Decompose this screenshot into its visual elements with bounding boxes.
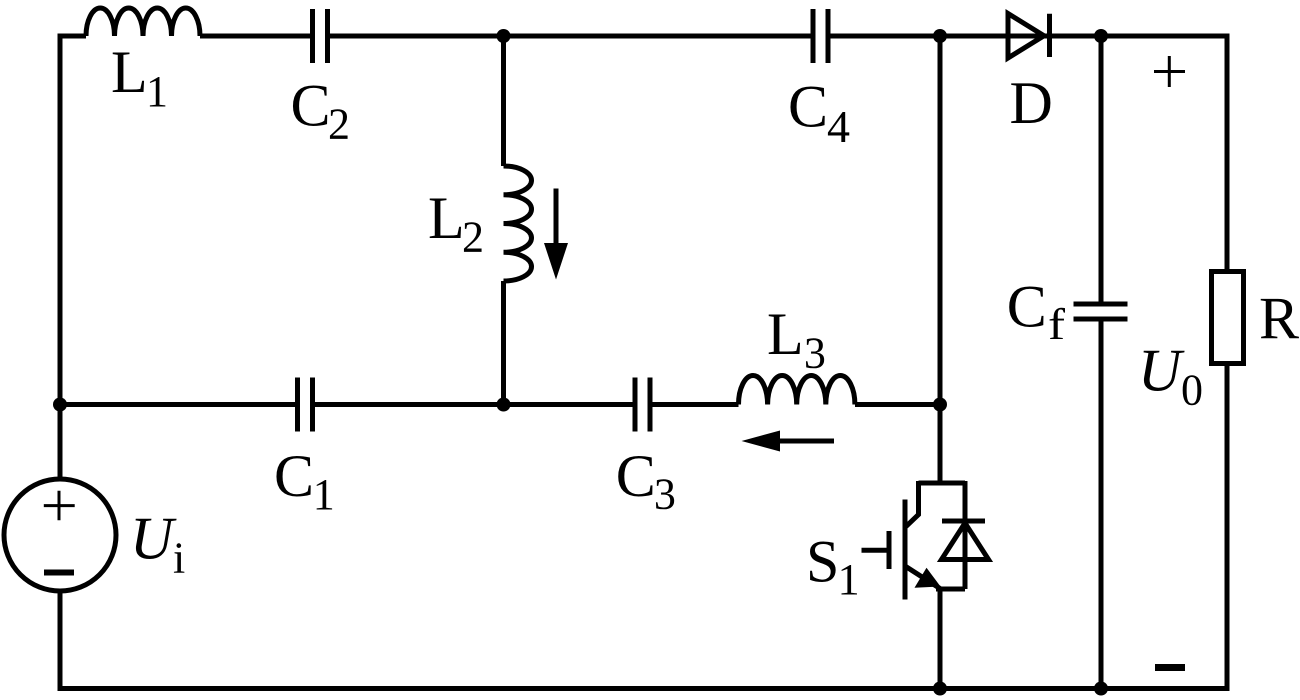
svg-text:1: 1 (146, 67, 168, 116)
svg-text:1: 1 (838, 555, 860, 604)
svg-text:U: U (130, 506, 177, 572)
svg-text:i: i (173, 533, 185, 582)
svg-text:L: L (767, 301, 804, 367)
svg-text:0: 0 (1181, 365, 1203, 414)
svg-text:R: R (1259, 286, 1299, 352)
svg-text:1: 1 (313, 470, 335, 519)
svg-text:L: L (111, 39, 148, 105)
svg-text:4: 4 (827, 101, 850, 152)
svg-text:f: f (1048, 300, 1065, 349)
svg-text:D: D (1010, 70, 1053, 136)
svg-text:U: U (1138, 337, 1185, 403)
svg-text:C: C (1007, 274, 1047, 340)
svg-text:S: S (806, 528, 839, 594)
svg-text:C: C (788, 74, 828, 140)
svg-text:3: 3 (804, 328, 826, 377)
svg-text:C: C (291, 73, 331, 139)
svg-text:C: C (274, 443, 314, 509)
svg-text:C: C (616, 443, 656, 509)
svg-text:2: 2 (328, 100, 350, 149)
svg-text:3: 3 (654, 469, 676, 518)
svg-text:2: 2 (462, 212, 484, 261)
svg-text:L: L (428, 185, 465, 251)
